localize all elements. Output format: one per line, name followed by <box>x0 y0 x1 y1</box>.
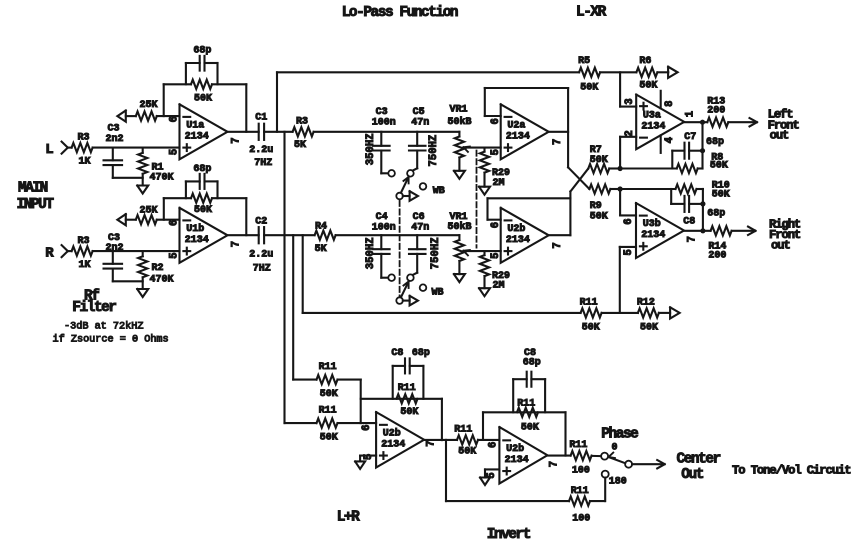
svg-text:2M: 2M <box>493 281 505 292</box>
svg-text:R6: R6 <box>639 56 651 67</box>
svg-text:Filter: Filter <box>72 300 116 316</box>
svg-text:if Zsource = 0 Ohms: if Zsource = 0 Ohms <box>53 333 169 345</box>
svg-text:100: 100 <box>572 514 590 525</box>
svg-text:2134: 2134 <box>381 439 405 450</box>
svg-text:6: 6 <box>490 118 502 124</box>
svg-text:U2b: U2b <box>507 223 525 235</box>
svg-text:7: 7 <box>426 440 438 446</box>
svg-text:2134: 2134 <box>505 455 529 466</box>
svg-text:U3a: U3a <box>643 111 661 122</box>
svg-text:C3: C3 <box>108 124 120 135</box>
svg-text:5K: 5K <box>315 244 327 255</box>
svg-text:25K: 25K <box>140 100 158 111</box>
svg-text:7: 7 <box>548 461 560 467</box>
svg-text:Invert: Invert <box>487 527 531 543</box>
svg-text:50K: 50K <box>590 155 608 166</box>
svg-text:7: 7 <box>230 241 242 247</box>
svg-text:100n: 100n <box>372 118 396 129</box>
svg-text:U2b: U2b <box>506 443 524 455</box>
svg-text:7: 7 <box>552 139 564 145</box>
svg-text:2134: 2134 <box>185 235 209 246</box>
svg-text:R12: R12 <box>637 297 655 308</box>
svg-text:50K: 50K <box>320 389 338 400</box>
svg-text:6: 6 <box>490 222 502 228</box>
svg-text:VR1: VR1 <box>450 105 468 116</box>
svg-text:R11: R11 <box>454 425 472 436</box>
svg-text:2134: 2134 <box>185 131 209 142</box>
svg-text:C8: C8 <box>683 217 695 228</box>
svg-text:1: 1 <box>684 111 696 117</box>
svg-text:350HZ: 350HZ <box>365 237 377 269</box>
svg-text:C2: C2 <box>255 216 267 227</box>
svg-text:68p: 68p <box>193 46 211 57</box>
svg-text:R3: R3 <box>296 117 308 128</box>
svg-text:C1: C1 <box>255 113 267 124</box>
svg-text:0: 0 <box>612 443 618 454</box>
svg-text:750HZ: 750HZ <box>430 237 442 269</box>
svg-text:R: R <box>45 246 54 262</box>
svg-text:C8: C8 <box>391 348 403 359</box>
svg-text:350HZ: 350HZ <box>365 133 377 165</box>
svg-text:68p: 68p <box>412 348 430 359</box>
svg-text:L+R: L+R <box>337 510 360 526</box>
svg-text:2134: 2134 <box>641 230 665 241</box>
svg-text:47n: 47n <box>411 222 429 233</box>
svg-text:R11: R11 <box>398 383 416 394</box>
svg-text:470K: 470K <box>150 173 174 184</box>
svg-text:2134: 2134 <box>641 121 665 132</box>
svg-text:2M: 2M <box>493 178 505 189</box>
svg-text:50K: 50K <box>400 407 418 418</box>
svg-text:200: 200 <box>708 251 726 262</box>
svg-text:5: 5 <box>490 253 502 259</box>
svg-text:50K: 50K <box>710 161 728 172</box>
svg-text:180: 180 <box>609 477 627 488</box>
svg-text:To Tone/Vol Circuit: To Tone/Vol Circuit <box>732 464 851 478</box>
svg-text:R11: R11 <box>319 406 337 417</box>
svg-text:7: 7 <box>552 242 564 248</box>
svg-text:R2: R2 <box>152 263 164 274</box>
svg-text:47n: 47n <box>411 118 429 129</box>
svg-text:U1a: U1a <box>186 121 204 132</box>
svg-text:2.2u: 2.2u <box>249 145 273 156</box>
svg-text:25K: 25K <box>140 205 158 216</box>
svg-text:Center: Center <box>677 451 721 467</box>
svg-text:50K: 50K <box>194 94 212 105</box>
svg-text:50K: 50K <box>194 205 212 216</box>
svg-text:2n2: 2n2 <box>106 134 124 145</box>
svg-text:L: L <box>45 142 53 158</box>
svg-text:U2a: U2a <box>507 121 525 132</box>
svg-text:Lo-Pass Function: Lo-Pass Function <box>342 5 458 21</box>
svg-text:7HZ: 7HZ <box>253 264 271 275</box>
svg-text:1K: 1K <box>79 260 91 271</box>
svg-text:5: 5 <box>490 149 502 155</box>
svg-text:R11: R11 <box>580 297 598 308</box>
svg-text:out: out <box>771 239 790 253</box>
svg-text:5: 5 <box>169 252 181 258</box>
svg-text:100: 100 <box>572 465 590 476</box>
svg-text:C7: C7 <box>684 132 696 143</box>
svg-text:5: 5 <box>169 149 181 155</box>
svg-text:R4: R4 <box>315 222 327 233</box>
svg-text:2: 2 <box>624 130 636 136</box>
svg-text:R11: R11 <box>517 398 535 409</box>
svg-text:50K: 50K <box>582 322 600 333</box>
svg-text:U2b: U2b <box>383 427 401 439</box>
svg-text:7: 7 <box>230 137 242 143</box>
svg-text:R11: R11 <box>571 486 589 497</box>
svg-text:INPUT: INPUT <box>17 197 55 213</box>
svg-text:6: 6 <box>169 116 181 122</box>
svg-text:WB: WB <box>433 186 445 197</box>
svg-text:U1b: U1b <box>186 223 204 235</box>
svg-text:R3: R3 <box>78 133 90 144</box>
svg-text:50K: 50K <box>320 433 338 444</box>
svg-text:2n2: 2n2 <box>106 243 124 254</box>
svg-text:6: 6 <box>361 425 373 431</box>
svg-text:50K: 50K <box>580 82 598 93</box>
svg-text:50K: 50K <box>712 190 730 201</box>
svg-text:50K: 50K <box>521 422 539 433</box>
svg-text:4: 4 <box>664 136 676 143</box>
svg-text:750HZ: 750HZ <box>428 135 440 167</box>
svg-text:1K: 1K <box>79 157 91 168</box>
svg-text:R11: R11 <box>569 440 587 451</box>
svg-text:3: 3 <box>624 98 636 104</box>
svg-text:6: 6 <box>623 218 635 224</box>
svg-text:WB: WB <box>432 288 444 299</box>
svg-text:68p: 68p <box>706 137 724 148</box>
svg-text:5: 5 <box>623 249 635 255</box>
svg-text:7HZ: 7HZ <box>254 158 272 169</box>
svg-text:MAIN: MAIN <box>18 180 48 196</box>
svg-text:68p: 68p <box>523 358 541 369</box>
svg-text:-3dB at 72kHZ: -3dB at 72kHZ <box>64 321 143 333</box>
svg-text:R3: R3 <box>78 236 90 247</box>
svg-text:6: 6 <box>488 442 500 448</box>
svg-text:7: 7 <box>686 236 698 242</box>
svg-text:Phase: Phase <box>601 427 638 443</box>
svg-text:2134: 2134 <box>506 235 530 246</box>
svg-text:50K: 50K <box>640 322 658 333</box>
svg-text:200: 200 <box>707 105 725 116</box>
svg-text:L-XR: L-XR <box>576 4 607 20</box>
svg-text:470K: 470K <box>150 275 174 286</box>
svg-text:U3b: U3b <box>643 218 661 230</box>
svg-text:50kB: 50kB <box>448 221 472 233</box>
svg-text:68p: 68p <box>193 164 211 175</box>
svg-text:R5: R5 <box>578 56 590 67</box>
svg-text:68p: 68p <box>707 208 725 219</box>
svg-text:50K: 50K <box>458 447 476 458</box>
svg-text:8: 8 <box>664 101 676 107</box>
svg-text:R11: R11 <box>319 362 337 373</box>
svg-text:out: out <box>770 129 789 143</box>
svg-text:6: 6 <box>169 220 181 226</box>
svg-text:50K: 50K <box>639 80 657 91</box>
svg-text:50kB: 50kB <box>448 116 472 128</box>
svg-text:50K: 50K <box>590 211 608 222</box>
svg-text:2134: 2134 <box>506 131 530 142</box>
svg-text:100n: 100n <box>372 222 396 233</box>
svg-text:5K: 5K <box>294 140 306 151</box>
svg-text:Out: Out <box>681 467 703 483</box>
svg-text:2.2u: 2.2u <box>249 250 273 261</box>
